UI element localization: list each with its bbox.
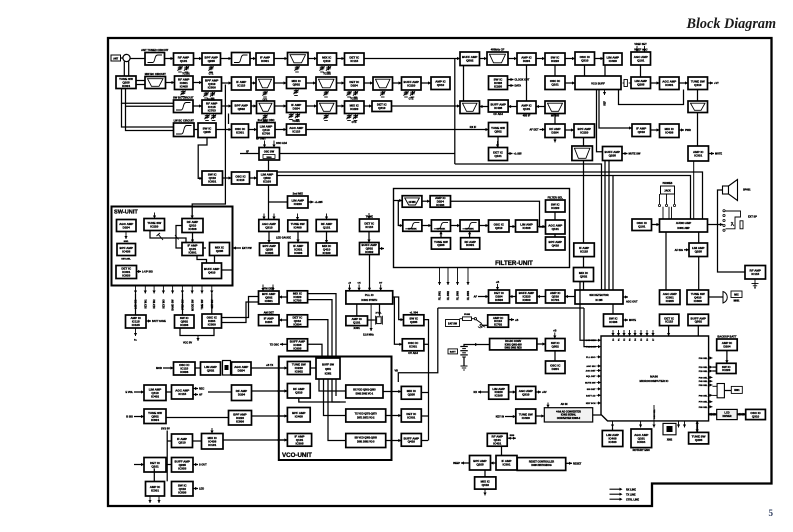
wire sw to W4: [482, 324, 488, 326]
CF F3: [572, 146, 593, 161]
wire K6 down J6: [698, 257, 700, 291]
wire H11 up H9: [439, 231, 442, 237]
amp U1: [144, 385, 166, 401]
wire C3-C4: [193, 81, 202, 84]
wire branch to N1: [269, 201, 288, 203]
wire V1 down V4: [299, 398, 340, 402]
BPF C2: [145, 72, 166, 89]
wire M8 out: [137, 270, 142, 273]
svg-text:IC506: IC506: [495, 298, 503, 302]
svg-text:IC402: IC402: [151, 394, 159, 398]
SW-UNIT pin BAND SW: [171, 286, 175, 311]
wire B10-B11: [508, 57, 517, 60]
label X3 in: [496, 416, 504, 419]
det D8: [372, 101, 392, 112]
buffer tall T6: [316, 358, 340, 379]
wire C4-C5: [222, 81, 232, 84]
svg-text:IC304: IC304: [122, 84, 130, 88]
ground symbol battery: [461, 366, 468, 370]
wire Tb out to V3: [223, 438, 287, 441]
crystal CPU Y2: [713, 384, 725, 398]
svg-text:DRIVER: DRIVER: [722, 415, 731, 418]
legend signal lines: [610, 488, 640, 502]
CPU bottom pin: [611, 421, 614, 428]
label Tf out: [199, 488, 204, 491]
mix E3: [232, 124, 249, 138]
wire D2-D3: [222, 104, 232, 107]
svg-text:SW BC CIRCUIT: SW BC CIRCUIT: [173, 96, 194, 100]
wire E8 down F3: [583, 138, 585, 147]
svg-text:4-bit AD CONVERTER: 4-bit AD CONVERTER: [556, 410, 581, 413]
mix G3: [257, 171, 277, 185]
SW-UNIT pin TIME SW: [200, 286, 204, 310]
reg N3: [288, 220, 308, 232]
wire S2 S3 link: [180, 328, 214, 336]
wire mode select drop: [697, 326, 699, 336]
reg X3: [516, 409, 536, 423]
label above X4: [561, 403, 568, 406]
CPU right pin labels: [699, 356, 713, 408]
wire V7 right: [421, 392, 428, 394]
label U2 out b: [199, 394, 203, 397]
mix B8: [345, 53, 365, 65]
wire speaker feed: [718, 190, 746, 272]
BPF B6: [288, 53, 309, 66]
svg-text:Q205: Q205: [437, 243, 445, 247]
bus vertical row1 drop: [454, 59, 456, 165]
svg-text:D204: D204: [123, 225, 131, 229]
wire E2 down G1: [198, 138, 207, 181]
label above F1 b: [276, 142, 288, 145]
svg-text:IC 205: IC 205: [595, 299, 603, 302]
svg-text:Q310: Q310: [265, 225, 273, 229]
wire X7-X6: [491, 461, 497, 464]
svg-text:IC406: IC406: [188, 227, 196, 231]
reg S2: [175, 315, 195, 328]
wire Td out: [193, 463, 198, 466]
det F4: [603, 147, 623, 161]
svg-text:KEY IN2: KEY IN2: [154, 299, 156, 309]
amp Tc: [144, 458, 166, 473]
wire C15 feedback loop: [619, 90, 684, 105]
svg-text:Q310: Q310: [295, 391, 303, 395]
CPU interior stub: [654, 405, 656, 421]
CPU top pin labels: [613, 338, 655, 341]
reset drv X7: [496, 456, 517, 471]
wire B13-B14: [595, 57, 604, 60]
label below S2S3: [183, 342, 192, 345]
pin above N4: [325, 214, 328, 220]
AGC I2: [574, 268, 594, 282]
CPU main microcomputer Y1: [601, 336, 709, 421]
label below M1: [124, 241, 130, 243]
IF amp C5: [232, 77, 252, 90]
wire M7 in: [233, 246, 241, 249]
buffer D9b: [488, 100, 508, 116]
svg-text:LW BC CIRCUIT: LW BC CIRCUIT: [174, 119, 195, 123]
wire C6-C7: [274, 81, 287, 84]
label F5 out: [715, 153, 722, 156]
wire B12-B13: [565, 57, 575, 60]
label X6 out: [453, 462, 460, 465]
svg-text:SYS 5V: SYS 5V: [161, 428, 170, 431]
pin below S1: [134, 328, 137, 336]
svg-text:Q310: Q310: [638, 130, 646, 134]
wire pin to S3: [211, 294, 213, 315]
label J4 out: [626, 301, 638, 304]
wire Y6-Y7: [725, 351, 728, 364]
svg-text:MUTE SW: MUTE SW: [629, 153, 641, 156]
svg-text:IC401: IC401: [493, 441, 501, 445]
svg-text:IC902: IC902: [295, 370, 303, 374]
wire C13 out b: [508, 84, 514, 87]
wire J4 down Z1: [612, 304, 614, 314]
svg-text:TX LINE: TX LINE: [626, 493, 636, 496]
mix T5: [287, 362, 310, 375]
wire B2-B3: [194, 57, 203, 60]
svg-text:Q101: Q101: [180, 59, 188, 63]
wire D6-D7: [337, 104, 345, 107]
svg-text:IC408: IC408: [494, 106, 502, 110]
wire X1 out left: [478, 390, 489, 393]
wire bus to Ta: [167, 440, 171, 442]
CPU top pin: [628, 330, 631, 336]
wire B5-B6: [274, 57, 288, 60]
wire F4 out: [622, 152, 628, 155]
sw M2: [144, 219, 165, 231]
wire D11-D10: [536, 105, 545, 108]
svg-text:LED GAUGE: LED GAUGE: [276, 237, 291, 240]
svg-text:IC805: IC805: [265, 251, 273, 255]
svg-text:IC305: IC305: [295, 441, 303, 445]
double arrow CPU-Y4: [709, 413, 717, 416]
wire M3 left loop: [176, 226, 182, 249]
svg-text:MOD: MOD: [156, 367, 162, 370]
wire pin to S1: [135, 294, 137, 316]
svg-text:KEY IN3: KEY IN3: [164, 299, 166, 309]
svg-text:MUTE: MUTE: [715, 153, 722, 156]
svg-text:IC405: IC405: [180, 84, 188, 88]
buffer G1: [202, 171, 223, 185]
wire M7 down M9: [214, 256, 216, 264]
wire E7-E8: [565, 128, 574, 131]
wire Tc in: [134, 463, 144, 466]
CF D11: [545, 101, 565, 118]
det R2: [259, 310, 280, 325]
pin above N2 b: [272, 214, 275, 220]
filter-unit pin FIL SW3: [456, 268, 460, 301]
TX ind Y8: [745, 266, 766, 280]
svg-text:P70 SEL: P70 SEL: [699, 402, 708, 404]
amp T4: [232, 362, 252, 375]
wire H10 up H4: [468, 231, 471, 237]
label PLL ref: [363, 333, 374, 336]
svg-text:D204: D204: [238, 393, 246, 397]
svg-text:Q502: Q502: [207, 368, 215, 372]
wire V4-V7: [383, 390, 401, 393]
svg-text:IC403: IC403: [436, 203, 444, 207]
svg-text:Q205: Q205: [208, 59, 216, 63]
svg-text:AF: AF: [474, 296, 478, 299]
BPF D6: [317, 101, 337, 114]
svg-text:IC601 Q601-603: IC601 Q601-603: [505, 344, 523, 346]
wire N2-N5: [267, 232, 270, 244]
sw H7: [546, 220, 566, 234]
EEPROM Y13: [689, 432, 709, 444]
wire filter input: [394, 199, 402, 202]
label above W9: [553, 330, 556, 333]
svg-text:IC408: IC408: [122, 249, 130, 253]
wire G1-G2: [223, 176, 232, 179]
wire C13 out a: [508, 78, 514, 81]
pin below Te a: [148, 496, 151, 503]
svg-text:RX LINE: RX LINE: [626, 488, 636, 491]
svg-text:RESET: RESET: [573, 463, 582, 466]
wire X3 in: [505, 415, 516, 418]
squelch F5: [688, 146, 709, 161]
label speaker: [743, 189, 751, 192]
wire Q1-R1: [279, 295, 287, 298]
amp V2: [287, 408, 310, 423]
trimmer under C9: [346, 91, 358, 97]
svg-text:BAND SW: BAND SW: [172, 299, 175, 311]
svg-text:Q205: Q205: [408, 393, 416, 397]
label Q3 out: [270, 344, 280, 347]
trimmer under C4: [203, 92, 215, 98]
wire P5 out: [424, 343, 429, 345]
wire C11-C12: [421, 81, 431, 84]
wire Tc down Te: [153, 468, 155, 481]
svg-text:RX IF: RX IF: [470, 126, 477, 129]
trimmer under C3: [180, 91, 185, 97]
wire D4-D5: [275, 104, 287, 107]
bus F4 drop b: [608, 161, 610, 291]
svg-text:ANT TUNED CIRCUIT: ANT TUNED CIRCUIT: [141, 48, 169, 52]
wire C18-C19: [679, 81, 688, 84]
power rail horizontal: [438, 307, 584, 309]
wire P2 up P1: [356, 304, 358, 316]
wire D8 bus right: [392, 104, 461, 107]
svg-text:IC601: IC601: [188, 251, 196, 255]
svg-text:EXT SP: EXT SP: [748, 216, 757, 219]
IF amp N1: [288, 192, 309, 209]
svg-text:X602: X602: [667, 440, 673, 442]
buffer Q1: [287, 291, 307, 303]
LPF E1: [174, 119, 195, 137]
trimmer under C8: [323, 91, 328, 97]
trimmer under B6: [294, 66, 299, 72]
CPU bottom pin: [677, 421, 680, 428]
wire V3 in: [277, 439, 287, 441]
buffer Q3: [287, 339, 307, 351]
pin above B15 b: [643, 46, 646, 52]
svg-text:IC220: IC220: [294, 202, 302, 206]
lithium battery Y6: [717, 335, 738, 351]
svg-text:PLL SDO: PLL SDO: [586, 357, 596, 359]
wire B1-B2: [165, 57, 174, 60]
amp D5: [287, 101, 307, 113]
FET sw K1: [632, 219, 652, 231]
pin above B15: [635, 46, 638, 52]
wire B12 down C14: [554, 65, 556, 76]
svg-text:IC301: IC301: [409, 345, 417, 349]
svg-text:KEY SCN: KEY SCN: [586, 403, 596, 405]
BPF B10: [487, 48, 508, 66]
svg-text:IC205: IC205: [494, 84, 502, 88]
wire N4-N7: [325, 232, 328, 244]
TCXO P2: [346, 316, 368, 330]
svg-text:BUFF SW: BUFF SW: [322, 363, 334, 367]
LPF H8: [403, 220, 422, 231]
det X1: [489, 385, 509, 399]
BPF E4: [257, 118, 275, 138]
svg-text:Q410: Q410: [408, 440, 416, 444]
wire H6-H7: [538, 225, 546, 228]
wire P1 right to P4: [393, 297, 404, 321]
amp J2: [516, 290, 537, 303]
svg-text:AF DET: AF DET: [529, 129, 539, 132]
wire M6 down M9: [197, 256, 207, 264]
svg-text:MIC: MIC: [734, 294, 739, 297]
svg-text:IC506: IC506: [208, 86, 216, 90]
label Z1 out: [629, 319, 636, 322]
svg-text:AF: AF: [199, 394, 203, 397]
LPF H9: [431, 220, 450, 231]
wire C1-C2 b: [136, 84, 145, 86]
wire C19 down D12: [697, 90, 699, 102]
svg-text:Q502: Q502: [293, 83, 301, 87]
svg-text:OSC SEL: OSC SEL: [654, 409, 656, 419]
svg-text:Q101: Q101: [494, 154, 502, 158]
svg-text:+B: +B: [496, 281, 499, 284]
pin above M2: [153, 213, 156, 219]
meter amp E10: [660, 124, 680, 138]
svg-text:IC601 AMP: IC601 AMP: [677, 227, 690, 230]
wire X4 to CPU: [593, 414, 601, 416]
amp E5: [287, 124, 307, 135]
label ext jack: [748, 216, 757, 219]
svg-text:IC602 SERIAL: IC602 SERIAL: [561, 414, 577, 417]
svg-text:FUSE: FUSE: [464, 314, 470, 316]
buf H2: [430, 196, 450, 208]
svg-text:Q502: Q502: [238, 107, 246, 111]
notch J1: [489, 290, 510, 303]
svg-text:455kHz CF: 455kHz CF: [491, 48, 505, 52]
label T4-T5 wire: [266, 364, 273, 367]
svg-text:PHONES: PHONES: [663, 183, 673, 185]
reg N4: [316, 220, 337, 232]
svg-text:IC301 SYNTH: IC301 SYNTH: [361, 299, 377, 302]
fuse F601: [460, 314, 475, 321]
trimmer under C11: [403, 91, 415, 97]
svg-text:FIL SW4: FIL SW4: [467, 290, 470, 300]
wire I2 down J4: [583, 282, 585, 291]
svg-text:IC702: IC702: [494, 323, 502, 327]
wire row1 bus to B9: [364, 57, 460, 60]
trimmer under D5: [288, 114, 300, 120]
svg-text:VCC 5V: VCC 5V: [183, 342, 192, 345]
svg-text:12.8 MHz: 12.8 MHz: [363, 333, 374, 336]
CPU bottom pin: [652, 421, 655, 428]
svg-text:RF UNIT: RF UNIT: [256, 138, 266, 141]
bus L3 audio b: [277, 176, 691, 220]
svg-text:IC408: IC408: [522, 226, 530, 230]
pin above R1 b: [271, 285, 274, 292]
reg W10: [546, 361, 566, 374]
svg-text:Q205: Q205: [609, 153, 617, 157]
wire Q3 out left: [280, 343, 287, 346]
headphone jack K3: [658, 183, 675, 219]
label T1 in: [156, 367, 162, 370]
label X8 out: [573, 463, 582, 466]
svg-text:Q502: Q502: [580, 274, 588, 278]
svg-text:IC205: IC205: [666, 299, 674, 303]
svg-text:+B: +B: [553, 330, 556, 333]
wire E3-E4: [249, 128, 258, 131]
wire U2 out a: [193, 387, 198, 390]
pin above N3: [296, 214, 299, 221]
wire V9 right: [421, 440, 428, 442]
wire T6 fan V4: [319, 379, 346, 391]
svg-text:AM DET: AM DET: [264, 310, 275, 314]
amp E8: [574, 124, 595, 138]
double arrow X5 out: [507, 435, 516, 440]
svg-text:D204: D204: [723, 345, 731, 349]
svg-text:Q310: Q310: [178, 441, 186, 445]
label under C11 trim: [409, 98, 414, 101]
wire B3-B4: [221, 57, 232, 60]
svg-text:IC352: IC352: [325, 372, 332, 375]
wire J4-J3: [565, 295, 575, 298]
svg-text:Q101: Q101: [552, 227, 560, 231]
svg-text:TC102: TC102: [323, 73, 331, 76]
svg-text:VB: VB: [395, 370, 399, 373]
mix C4: [202, 77, 222, 91]
label LED group: [276, 237, 291, 240]
CPU clock label box Y3: [731, 386, 742, 393]
drv U5: [229, 411, 252, 426]
svg-text:IC105: IC105: [495, 394, 503, 398]
buffer V9: [401, 434, 421, 447]
svg-text:Q101: Q101: [353, 321, 361, 325]
wire J2-J1: [510, 295, 517, 298]
key matrix: [660, 314, 679, 325]
svg-text:+B TX: +B TX: [266, 364, 273, 367]
svg-text:CT3: CT3: [352, 121, 357, 124]
wire N3-N6: [296, 232, 299, 243]
svg-text:CTRL LINE: CTRL LINE: [626, 498, 639, 501]
svg-text:IC703: IC703: [208, 108, 216, 112]
ref osc B15: [631, 48, 651, 66]
RX VCO V4: [346, 385, 383, 398]
svg-text:Q310: Q310: [752, 414, 760, 418]
wire J3-J2: [537, 295, 546, 298]
svg-text:IC115: IC115: [365, 225, 373, 229]
svg-text:IC301: IC301: [466, 243, 474, 247]
svg-text:D381 D382 VC-3: D381 D382 VC-3: [357, 442, 375, 444]
IF amp B9: [460, 52, 480, 66]
svg-text:IC206: IC206: [180, 323, 188, 327]
wire D12 down F5: [697, 113, 699, 147]
wire E1-E2: [194, 129, 198, 131]
amp J3: [546, 290, 566, 303]
wire Q1 right drop b: [308, 300, 332, 358]
svg-text:Q410: Q410: [482, 483, 490, 487]
wire junction down a: [123, 62, 125, 77]
svg-text:SW-UNIT: SW-UNIT: [114, 210, 138, 216]
trimmer under D7: [346, 115, 358, 121]
wire H4-H5: [479, 224, 488, 227]
